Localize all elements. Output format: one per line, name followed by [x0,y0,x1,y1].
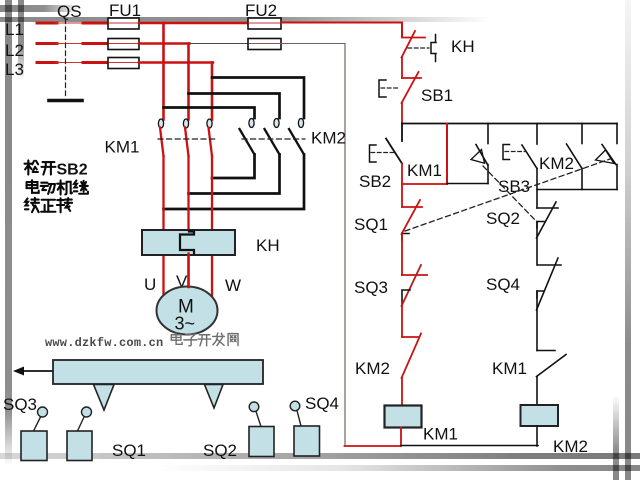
svg-text:KM2: KM2 [311,129,346,148]
svg-text:QS: QS [57,2,82,21]
wire control right rail [344,44,346,447]
contactor KM2 main pole 2 blade open [265,129,280,155]
contactor KM1 main pole 2 blade closed [185,128,189,157]
linkage dashed SQ2 NO to SQ2 NC [483,166,536,221]
disconnect switch QS handle bar [49,99,82,103]
contact KM1 interlock NC blade [537,355,567,377]
limit switch SQ4 body [294,426,320,456]
fuse FU2-2 [248,39,281,50]
wire phase W down to KH [211,156,213,297]
wire L3 from FU1 to feeder tap [139,61,213,63]
coil KM1 [385,406,422,428]
frame top band inner [0,5,85,12]
contactor KM2 main pole 3 terminal [298,119,303,128]
svg-text:KM2: KM2 [553,437,588,456]
limit switch SQ2 NO upper stub [487,124,489,144]
svg-text:KM2: KM2 [355,359,390,378]
wire KM2 NC to coil KM1 [401,378,403,406]
wire L1 left segment [37,22,57,25]
wire KM1 NC to coil KM2 [536,377,538,406]
frame bottom band outer [0,453,640,459]
limit switch SQ2 NO blade [476,145,488,165]
wire SB1 to bus [401,103,403,124]
watermark char fa [213,333,225,346]
limit switch SQ4 NC blade [537,258,559,310]
wire L3 left segment [37,61,57,64]
wire bottom rail black [401,445,538,447]
wire SQ2 NO lower stub [487,165,489,184]
limit switch SQ1 roller [82,407,92,417]
wire motor lead V [187,255,190,287]
svg-text:SQ2: SQ2 [203,441,237,460]
thermal relay KH NC release symbol [431,35,436,62]
watermark char kai [198,335,210,346]
wire L2 feeder drop [187,44,190,120]
contactor KM2 main pole 3 blade open [289,129,304,155]
limit switch SQ1 NO blade [602,145,616,165]
pushbutton SB1 NC blade [402,72,419,103]
limit switch SQ2 NO roller triangle [471,150,485,164]
disconnect switch QS pole 3 blade [56,62,84,64]
contactor KM1 main pole 1 terminal [158,119,163,128]
svg-text:KM1: KM1 [423,425,458,444]
worktable dog 1 [94,385,115,411]
limit switch SQ2 NC anvil [537,207,558,209]
svg-text:W: W [225,276,241,295]
limit switch SQ4 NC hook [537,291,544,298]
annotation char song [24,160,38,174]
svg-text:SB2: SB2 [57,162,88,179]
contact KM2 selfhold NO blade [567,144,583,169]
wire L2 control feed thin [281,43,345,45]
contactor KM1 main pole 2 terminal [183,119,188,128]
contactor KM2 main linkage dashed [242,138,305,140]
limit switch SQ3 NC anvil [402,274,427,276]
limit switch SQ2 NC hook [537,222,544,229]
annotation char dian [27,180,39,193]
limit switch SQ4 NC anvil [538,264,561,266]
svg-text:KH: KH [451,37,475,56]
svg-text:L1: L1 [5,20,24,39]
contactor KM2 main pole 2 terminal [274,119,279,128]
wire L1 control feed to KH [281,23,402,37]
limit switch SQ4 roller [290,401,300,411]
linkage dashed SQ1 NC to SQ1 NO [405,159,610,231]
contactor KM2 main pole 1 terminal [249,119,254,128]
worktable arrow [22,370,53,372]
watermark char dian [171,333,182,344]
frame left band outer [5,0,12,466]
svg-text:L3: L3 [5,60,24,79]
svg-text:SQ4: SQ4 [486,275,520,294]
limit switch SQ4 stem [297,411,301,427]
pushbutton SB3 NO blade [522,145,537,169]
frame right band inner [613,395,619,480]
wire KH to SB1 [401,57,403,78]
limit switch SQ1 NO upper stub [616,124,618,144]
limit switch SQ1 NC anvil [402,206,422,208]
contact KM1 interlock NC anvil [537,350,555,352]
svg-text:SQ3: SQ3 [354,278,388,297]
contactor KM2 main pole 1 blade open [240,129,255,155]
pushbutton SB3 linkage dashed [505,151,526,153]
wire control top bus [402,123,617,125]
annotation char xu [25,198,39,212]
contact KM2 interlock NC anvil [402,336,419,338]
wire SQ3 to KM2 NC [401,302,403,337]
wire node A black [447,183,488,185]
svg-text:KM1: KM1 [407,161,442,180]
thermal relay KH NC contact blade [402,31,416,58]
svg-text:SQ4: SQ4 [305,394,339,413]
contact KM2 selfhold upper stub [581,124,583,144]
limit switch SQ3 NC blade [402,265,422,306]
limit switch SQ3 body [21,431,47,461]
svg-text:SB1: SB1 [421,86,453,105]
svg-text:3~: 3~ [175,314,196,334]
wire bottom rail red [345,445,402,447]
wire phase V down to KH [187,156,189,232]
wire KM2 pole3 output to phase U [164,155,305,210]
wire L3 feeder drop [211,63,214,120]
pushbutton SB3 upper stub [536,124,538,145]
limit switch SQ2 stem [256,412,261,427]
motor M body [157,287,218,335]
frame left band inner [18,0,25,80]
wire L2 from FU1 to feeder tap [139,42,190,44]
wire phase U down to KH [162,156,164,295]
wire SB2 to SQ1 [401,164,403,208]
limit switch SQ1 NO roller triangle [596,150,615,164]
wire L1 to fuse FU1 [83,22,109,25]
disconnect switch QS pole 2 blade [56,43,84,45]
limit switch SQ1 NC blade [402,200,421,234]
svg-text:KM1: KM1 [492,359,527,378]
wire L1 feeder drop [162,23,165,120]
limit switch SQ2 NC blade [537,202,557,238]
pushbutton SB2 upper stub [401,124,403,142]
fuse FU2-1 [248,18,281,29]
svg-text:SQ3: SQ3 [3,395,37,414]
limit switch SQ1 NC hook [402,234,409,241]
pushbutton SB3 actuator [503,145,510,160]
wire L2 to fuse FU1 [83,42,109,45]
contact KM2 interlock NC blade [402,334,422,379]
wire L3 to fuse FU1 [83,61,109,64]
svg-text:KM2: KM2 [539,154,574,173]
svg-text:SQ1: SQ1 [112,441,146,460]
pushbutton SB2 NO blade [386,139,402,164]
contact KM1 selfhold branch [446,124,448,185]
limit switch SQ3 stem [34,417,41,431]
thermal relay KH box [142,230,235,255]
svg-text:SB2: SB2 [359,172,391,191]
wire tap L1 to KM2 pole 1 [164,108,255,119]
disconnect switch QS linkage dashed [65,19,67,96]
wire phase V through KH [187,254,189,288]
annotation char ji [57,180,72,194]
wire SQ1 to SQ3 [401,234,403,275]
wire L2 left segment [37,42,57,45]
wire node A red [402,183,447,185]
svg-text:FU2: FU2 [245,1,277,20]
limit switch SQ3 NC hook [402,290,410,302]
worktable bar [53,360,263,384]
wire node B [537,189,617,191]
wire coil KM1 to bottom rail [400,428,402,447]
annotation char zheng [41,200,55,212]
contactor KM1 main pole 1 blade closed [160,128,164,157]
limit switch SQ2 body [249,427,274,457]
wire SQ2 to SQ4 [536,222,538,266]
pushbutton SB2 linkage dashed [371,152,396,154]
svg-text:FU1: FU1 [109,1,141,20]
fuse FU1-1 [108,18,139,29]
svg-text:KM1: KM1 [105,138,140,157]
wire tap L3 to KM2 pole 3 [212,78,304,119]
watermark char wang [228,334,238,346]
annotation char zhuan [57,198,72,212]
pushbutton SB1 anvil [402,77,421,79]
svg-text:U: U [144,275,156,294]
limit switch SQ3 roller [38,407,48,417]
frame bottom band inner [150,465,640,471]
svg-text:SQ2: SQ2 [486,209,520,228]
annotation char dong [41,183,55,194]
svg-text:L2: L2 [5,41,24,60]
svg-text:www.dzkfw.com.cn: www.dzkfw.com.cn [45,336,163,350]
wire KM2 pole1 output to phase W [212,155,255,179]
contactor KM1 main pole 3 blade closed [209,128,213,157]
wire SQ4 to KM1 NC [536,291,538,351]
annotation char ji2 [74,180,88,193]
contactor KM1 main pole 3 terminal [207,119,212,128]
coil KM2 [521,405,559,426]
frame top band outer [0,17,545,22]
limit switch SQ2 roller [249,402,259,412]
fuse FU1-2 [108,39,139,50]
pushbutton SB1 linkage dashed [381,87,400,89]
thermal relay KH NC contact anvil [402,37,425,39]
pushbutton SB2 actuator [370,145,377,162]
wire SQ1 NO lower stub [616,165,618,190]
wire coil KM2 to bottom rail [536,426,538,446]
worktable dog 2 [205,385,224,409]
svg-text:KH: KH [256,236,280,255]
frame right band outer [625,0,631,480]
wire SB3 to SQ2 [536,169,538,209]
annotation char kai [41,162,55,174]
wire KM2 pole2 output to phase V [189,155,280,194]
contactor KM1 main linkage dashed [158,138,217,140]
wire tap L2 to KM2 pole 2 [189,94,280,119]
watermark char zi [184,334,197,346]
limit switch SQ1 body [67,431,92,461]
fuse FU1-3 [108,58,139,69]
wire L2 thin continuation to FU2 [188,43,249,45]
wire KM2 selfhold lower stub [581,169,583,190]
disconnect switch QS pole 1 blade [56,22,84,24]
wire L1 from FU1 to FU2 [139,22,249,24]
limit switch SQ1 stem [78,417,85,431]
thermal relay KH NC linkage dashed [408,47,429,49]
thermal relay KH heater element [180,232,194,254]
pushbutton SB1 actuator [379,80,386,97]
svg-text:SQ1: SQ1 [354,215,388,234]
